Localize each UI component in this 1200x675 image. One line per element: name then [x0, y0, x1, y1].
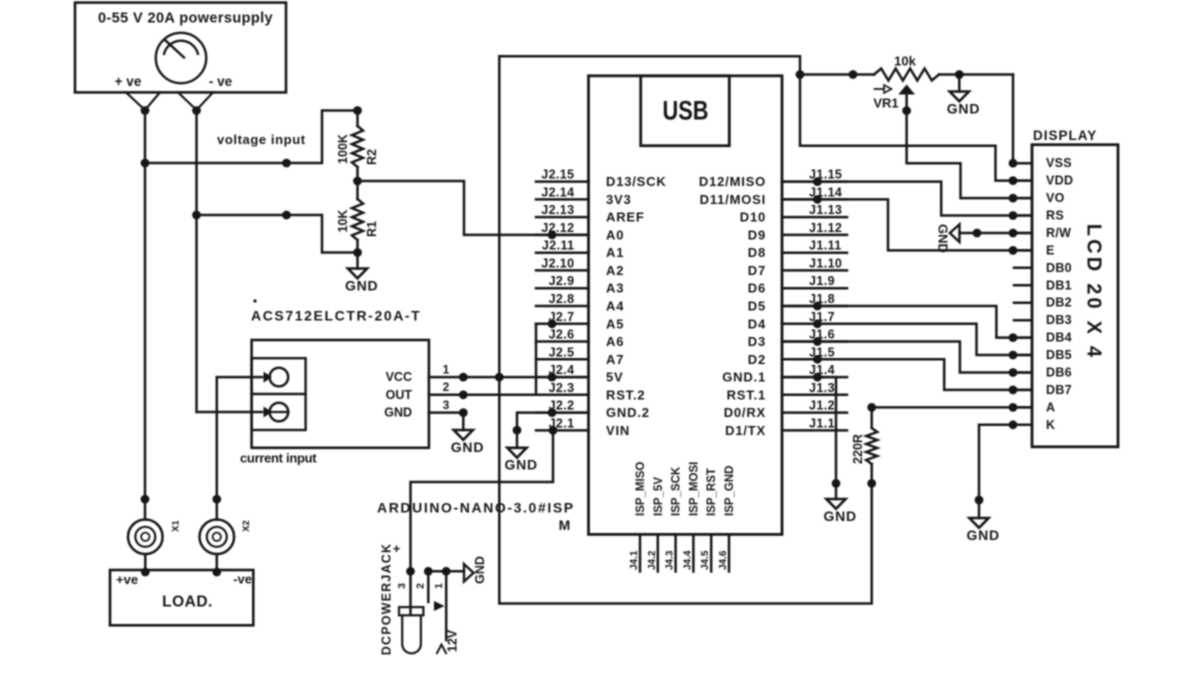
svg-text:GND: GND [966, 527, 1000, 543]
svg-text:D3: D3 [748, 334, 766, 349]
svg-text:J1.3: J1.3 [809, 381, 835, 395]
svg-text:J4.4: J4.4 [682, 550, 693, 570]
wire VR1 right to GND and VSS [939, 70, 1013, 79]
svg-text:100K: 100K [336, 134, 350, 164]
label 100K of R2 [336, 134, 350, 164]
label R1 [365, 221, 379, 237]
connector terminal +ve of PS1 [126, 92, 160, 115]
junction on +ve branch wire [282, 159, 291, 168]
label current input [240, 451, 317, 466]
junction GND.2 corner [513, 426, 522, 435]
svg-text:AREF: AREF [606, 210, 645, 225]
svg-text:D10: D10 [740, 210, 766, 225]
svg-text:RS: RS [1046, 209, 1064, 223]
ground at DC jack [464, 556, 487, 584]
label M wrapped [559, 517, 571, 533]
label - ve terminal [209, 74, 233, 89]
wire -ve vertical to ACS712 input [197, 111, 263, 413]
svg-text:J2.11: J2.11 [542, 239, 575, 253]
wire jack pins to ground [428, 570, 464, 573]
svg-text:X1: X1 [171, 519, 182, 531]
wire D5 to DB4 [782, 302, 1032, 342]
junction rail at VR1 [796, 70, 805, 79]
wire R/W to ground [960, 229, 1033, 238]
svg-text:ISP_5V: ISP_5V [653, 477, 665, 516]
svg-text:A1: A1 [606, 245, 624, 260]
label voltage input [217, 132, 306, 147]
ground at R/W [936, 224, 960, 253]
junction on -ve wire at R1 tap [192, 211, 201, 220]
svg-text:DCPOWERJACK: DCPOWERJACK [380, 543, 394, 656]
svg-text:VIN: VIN [606, 423, 630, 438]
resistor R2 100K [352, 106, 363, 199]
connector DC jack pin 1 [433, 567, 451, 640]
chevron 12V contact [437, 645, 447, 655]
junction on -ve branch wire [282, 211, 291, 220]
ground below GND.2 [504, 430, 538, 472]
label X2 [241, 520, 252, 532]
svg-text:10K: 10K [336, 210, 350, 233]
connector terminal block inside U1 [252, 358, 306, 430]
svg-text:J1.1: J1.1 [809, 416, 835, 430]
label ARDUINO-NANO-3.0#ISP [377, 500, 575, 516]
junction at J2.2 pin [548, 408, 557, 417]
svg-text:DB6: DB6 [1046, 366, 1072, 380]
ground below GND.1 [823, 499, 857, 524]
svg-text:GND.2: GND.2 [606, 405, 650, 420]
svg-text:J4.5: J4.5 [700, 550, 711, 570]
svg-text:GND: GND [504, 457, 538, 473]
label plus of jack [393, 541, 401, 556]
DC jack barrel [399, 607, 423, 653]
svg-text:GND: GND [384, 406, 412, 420]
svg-text:J2.3: J2.3 [549, 381, 575, 395]
connector terminal -ve of PS1 [178, 92, 213, 115]
power supply PS1 box [75, 3, 286, 93]
wire D4 to DB5 [782, 319, 1032, 359]
svg-text:D6: D6 [748, 281, 766, 296]
pin number 1 of U1 [443, 362, 450, 376]
svg-text:VDD: VDD [1046, 174, 1073, 188]
svg-text:A0: A0 [606, 227, 624, 242]
svg-text:D9: D9 [748, 227, 766, 242]
svg-text:J2.14: J2.14 [541, 185, 574, 199]
svg-text:voltage input: voltage input [217, 132, 306, 147]
svg-text:J2.9: J2.9 [549, 274, 575, 288]
svg-text:D8: D8 [748, 245, 766, 260]
label 10K of R1 [336, 210, 350, 233]
svg-text:GND: GND [345, 277, 379, 293]
pin VCC of U1 [386, 370, 468, 384]
svg-text:RST.2: RST.2 [606, 387, 645, 402]
wire GND.2 net [517, 413, 589, 431]
svg-text:1: 1 [433, 583, 445, 589]
LCD pins [1014, 156, 1073, 432]
svg-text:DB0: DB0 [1046, 261, 1072, 275]
wire VR1 wiper to VO [902, 95, 1032, 203]
svg-text:GND: GND [823, 508, 857, 524]
svg-text:USB: USB [663, 96, 709, 126]
junction VCC rail [495, 373, 504, 382]
USB box of U2 [641, 76, 730, 146]
label + ve terminal [115, 74, 142, 89]
svg-text:J2.10: J2.10 [541, 256, 574, 270]
ground below K [966, 518, 1000, 543]
svg-text:LOAD.: LOAD. [162, 594, 213, 611]
LCD display box [1032, 145, 1118, 447]
svg-text:J1.6: J1.6 [809, 328, 835, 342]
junction at J2.12 A0 pin [548, 231, 557, 240]
wire VIN net [411, 430, 554, 571]
svg-text:M: M [559, 517, 571, 533]
svg-text:current input: current input [240, 451, 317, 466]
wire K to ground [975, 420, 1032, 518]
svg-text:ISP_RST: ISP_RST [706, 468, 718, 516]
svg-text:J1.9: J1.9 [809, 274, 835, 288]
wire GND.1 to ground [782, 373, 840, 499]
svg-text:DB5: DB5 [1046, 348, 1072, 362]
svg-text:2: 2 [443, 380, 450, 394]
svg-text:+: + [393, 541, 401, 556]
label LCD 20 X 4 [1083, 224, 1105, 360]
svg-text:J2.7: J2.7 [549, 310, 575, 324]
meter symbol inside PS1 [156, 33, 206, 83]
wire OUT to A5 [463, 324, 588, 395]
svg-text:DB1: DB1 [1046, 278, 1072, 292]
svg-text:J4.2: J4.2 [647, 550, 658, 570]
svg-text:GND: GND [473, 556, 487, 584]
connector J1 pins of U2 [699, 168, 847, 438]
resistor R1 10K [352, 199, 363, 257]
banana jack X2 [200, 520, 235, 555]
svg-text:DB3: DB3 [1046, 313, 1072, 327]
svg-text:ISP_SCK: ISP_SCK [671, 466, 683, 516]
svg-text:VCC: VCC [386, 370, 412, 384]
label 12V [446, 629, 460, 652]
svg-text:D13/SCK: D13/SCK [606, 174, 667, 189]
LOAD box [110, 570, 253, 625]
svg-text:J1.2: J1.2 [809, 399, 835, 413]
ISP pin names of U2 [635, 462, 736, 516]
svg-text:3: 3 [443, 398, 450, 412]
svg-text:3V3: 3V3 [606, 192, 632, 207]
svg-text:A2: A2 [606, 263, 624, 278]
svg-text:1: 1 [443, 362, 450, 376]
terminal circle 2 of U1 [264, 403, 289, 422]
label DCPOWERJACK [380, 543, 394, 656]
wire +ve vertical to X1 [144, 111, 147, 520]
svg-text:J1.7: J1.7 [809, 310, 835, 324]
current sensor U1 box [252, 340, 429, 448]
svg-text:D7: D7 [748, 263, 766, 278]
label USB [663, 96, 709, 126]
svg-text:DB7: DB7 [1046, 383, 1072, 397]
svg-text:J4.6: J4.6 [718, 550, 729, 570]
svg-text:J2.4: J2.4 [549, 363, 575, 377]
svg-text:D5: D5 [748, 299, 766, 314]
svg-text:J4.3: J4.3 [665, 550, 676, 570]
svg-text:A4: A4 [606, 299, 624, 314]
svg-text:LCD 20 X 4: LCD 20 X 4 [1083, 224, 1105, 360]
junction at J2.7 A5 pin [548, 319, 557, 328]
wire D12 to RS [782, 177, 1032, 220]
connector DC jack pin 2 [415, 567, 445, 611]
svg-text:J2.13: J2.13 [541, 203, 574, 217]
connector DC jack pin 3 [396, 567, 415, 615]
svg-text:E: E [1046, 243, 1055, 257]
wire rail to VR1 [800, 70, 874, 79]
svg-text:+ve: +ve [116, 572, 138, 587]
svg-text:A7: A7 [606, 352, 624, 367]
potentiometer VR1 10k [874, 69, 939, 95]
svg-text:D4: D4 [748, 316, 766, 331]
junction above X1 [141, 495, 150, 504]
svg-text:VO: VO [1046, 191, 1065, 205]
svg-text:DISPLAY: DISPLAY [1033, 128, 1097, 143]
svg-text:J2.12: J2.12 [541, 221, 574, 235]
label X1 [171, 519, 182, 531]
svg-text:10k: 10k [894, 54, 916, 69]
junction at J2.1 VIN pin [549, 426, 558, 435]
junction at J2.4 5V pin [548, 373, 557, 382]
svg-text:GND: GND [451, 439, 485, 455]
svg-text:ISP_MOSI: ISP_MOSI [688, 462, 700, 516]
connector J4 ISP pins [629, 534, 729, 571]
junction above X2 [212, 495, 221, 504]
svg-text:ISP_GND: ISP_GND [724, 466, 736, 517]
wire 220R to A pin [872, 403, 1032, 412]
svg-text:12V: 12V [446, 629, 460, 652]
svg-text:J2.5: J2.5 [549, 345, 575, 359]
pin OUT of U1 [386, 388, 468, 402]
svg-text:2: 2 [415, 583, 427, 589]
svg-text:DB4: DB4 [1046, 331, 1072, 345]
wire divider to A0 [358, 181, 589, 235]
svg-text:D11/MOSI: D11/MOSI [700, 192, 766, 207]
wire VSS net [1009, 75, 1032, 168]
svg-text:J1.10: J1.10 [809, 256, 842, 270]
wire -ve to R1 bottom [197, 215, 358, 253]
svg-text:D12/MISO: D12/MISO [699, 174, 766, 189]
svg-text:220R: 220R [851, 434, 865, 464]
wire D2 to DB7 [782, 355, 1032, 394]
label -ve of LOAD [233, 572, 252, 587]
svg-text:J2.15: J2.15 [541, 168, 574, 182]
svg-text:A5: A5 [606, 316, 624, 331]
svg-text:ARDUINO-NANO-3.0#ISP: ARDUINO-NANO-3.0#ISP [377, 500, 575, 516]
label R2 [365, 149, 379, 165]
label 220R [851, 434, 865, 464]
wire X1 to LOAD [141, 554, 150, 576]
svg-text:X2: X2 [241, 520, 252, 532]
svg-text:A3: A3 [606, 281, 624, 296]
svg-text:5V: 5V [606, 370, 624, 385]
arduino U2 box [589, 76, 783, 535]
svg-text:A6: A6 [606, 334, 624, 349]
label 10k [894, 54, 916, 69]
svg-text:GND.1: GND.1 [722, 370, 766, 385]
ground below R1 [345, 253, 379, 294]
svg-text:GND: GND [947, 100, 981, 116]
svg-text:DB2: DB2 [1046, 296, 1072, 310]
label LOAD. [162, 594, 213, 611]
svg-text:0-55 V 20A powersupply: 0-55 V 20A powersupply [98, 11, 273, 27]
ground below U1 pin 3 [451, 413, 485, 455]
pin number 2 of U1 [443, 380, 450, 394]
svg-text:RST.1: RST.1 [727, 387, 766, 402]
svg-text:OUT: OUT [386, 388, 413, 402]
terminal circle 1 of U1 [264, 368, 289, 387]
svg-text:- ve: - ve [209, 74, 233, 89]
pin number 3 of U1 [443, 398, 450, 412]
ground at VR1 [947, 75, 981, 117]
svg-text:J4.1: J4.1 [629, 550, 640, 570]
svg-text:D2: D2 [748, 352, 766, 367]
svg-text:3: 3 [396, 583, 408, 589]
svg-text:J1.8: J1.8 [809, 292, 835, 306]
wire D3 to DB6 [782, 337, 1032, 377]
node divider junction to A0 [353, 177, 362, 186]
svg-text:ACS712ELCTR-20A-T: ACS712ELCTR-20A-T [251, 308, 421, 324]
wire +ve to R2 top [145, 111, 358, 164]
label +ve of LOAD [116, 572, 138, 587]
svg-text:J1.12: J1.12 [809, 221, 842, 235]
svg-text:K: K [1046, 418, 1055, 432]
label VR1 [873, 96, 898, 111]
svg-text:J1.5: J1.5 [809, 345, 835, 359]
svg-text:VR1: VR1 [873, 96, 898, 111]
svg-text:R1: R1 [365, 221, 379, 237]
svg-text:D1/TX: D1/TX [725, 423, 766, 438]
svg-text:-ve: -ve [233, 572, 252, 587]
junction on +ve wire at voltage divider tap [141, 159, 150, 168]
banana jack X1 [128, 520, 163, 555]
label DISPLAY [1033, 128, 1097, 143]
svg-text:D0/RX: D0/RX [724, 405, 766, 420]
wire VDD net [800, 75, 1032, 186]
svg-text:VSS: VSS [1046, 156, 1072, 170]
svg-text:GND: GND [936, 224, 951, 253]
wire D11 to E [782, 195, 1032, 255]
wire 5V rail around arduino [499, 56, 871, 603]
svg-text:J2.8: J2.8 [549, 292, 575, 306]
svg-text:A: A [1046, 400, 1055, 414]
wire X2 to LOAD [212, 554, 221, 576]
svg-text:J1.4: J1.4 [809, 363, 835, 377]
svg-text:R2: R2 [365, 149, 379, 165]
svg-text:R/W: R/W [1046, 226, 1071, 240]
svg-text:+ ve: + ve [115, 74, 142, 89]
connector J2 pins of U2 [536, 168, 667, 438]
label ACS712ELCTR-20A-T [251, 299, 421, 323]
svg-text:ISP_MISO: ISP_MISO [635, 462, 647, 516]
svg-text:J1.13: J1.13 [809, 203, 842, 217]
wire VCC to 5V [463, 376, 588, 379]
pin GND of U1 [384, 406, 467, 420]
wire X2 riser to U1 [217, 377, 262, 519]
svg-text:J1.11: J1.11 [809, 239, 842, 253]
svg-text:J2.6: J2.6 [549, 328, 575, 342]
label 0-55 V 20A powersupply [98, 11, 273, 27]
resistor R3 220R [866, 403, 877, 488]
